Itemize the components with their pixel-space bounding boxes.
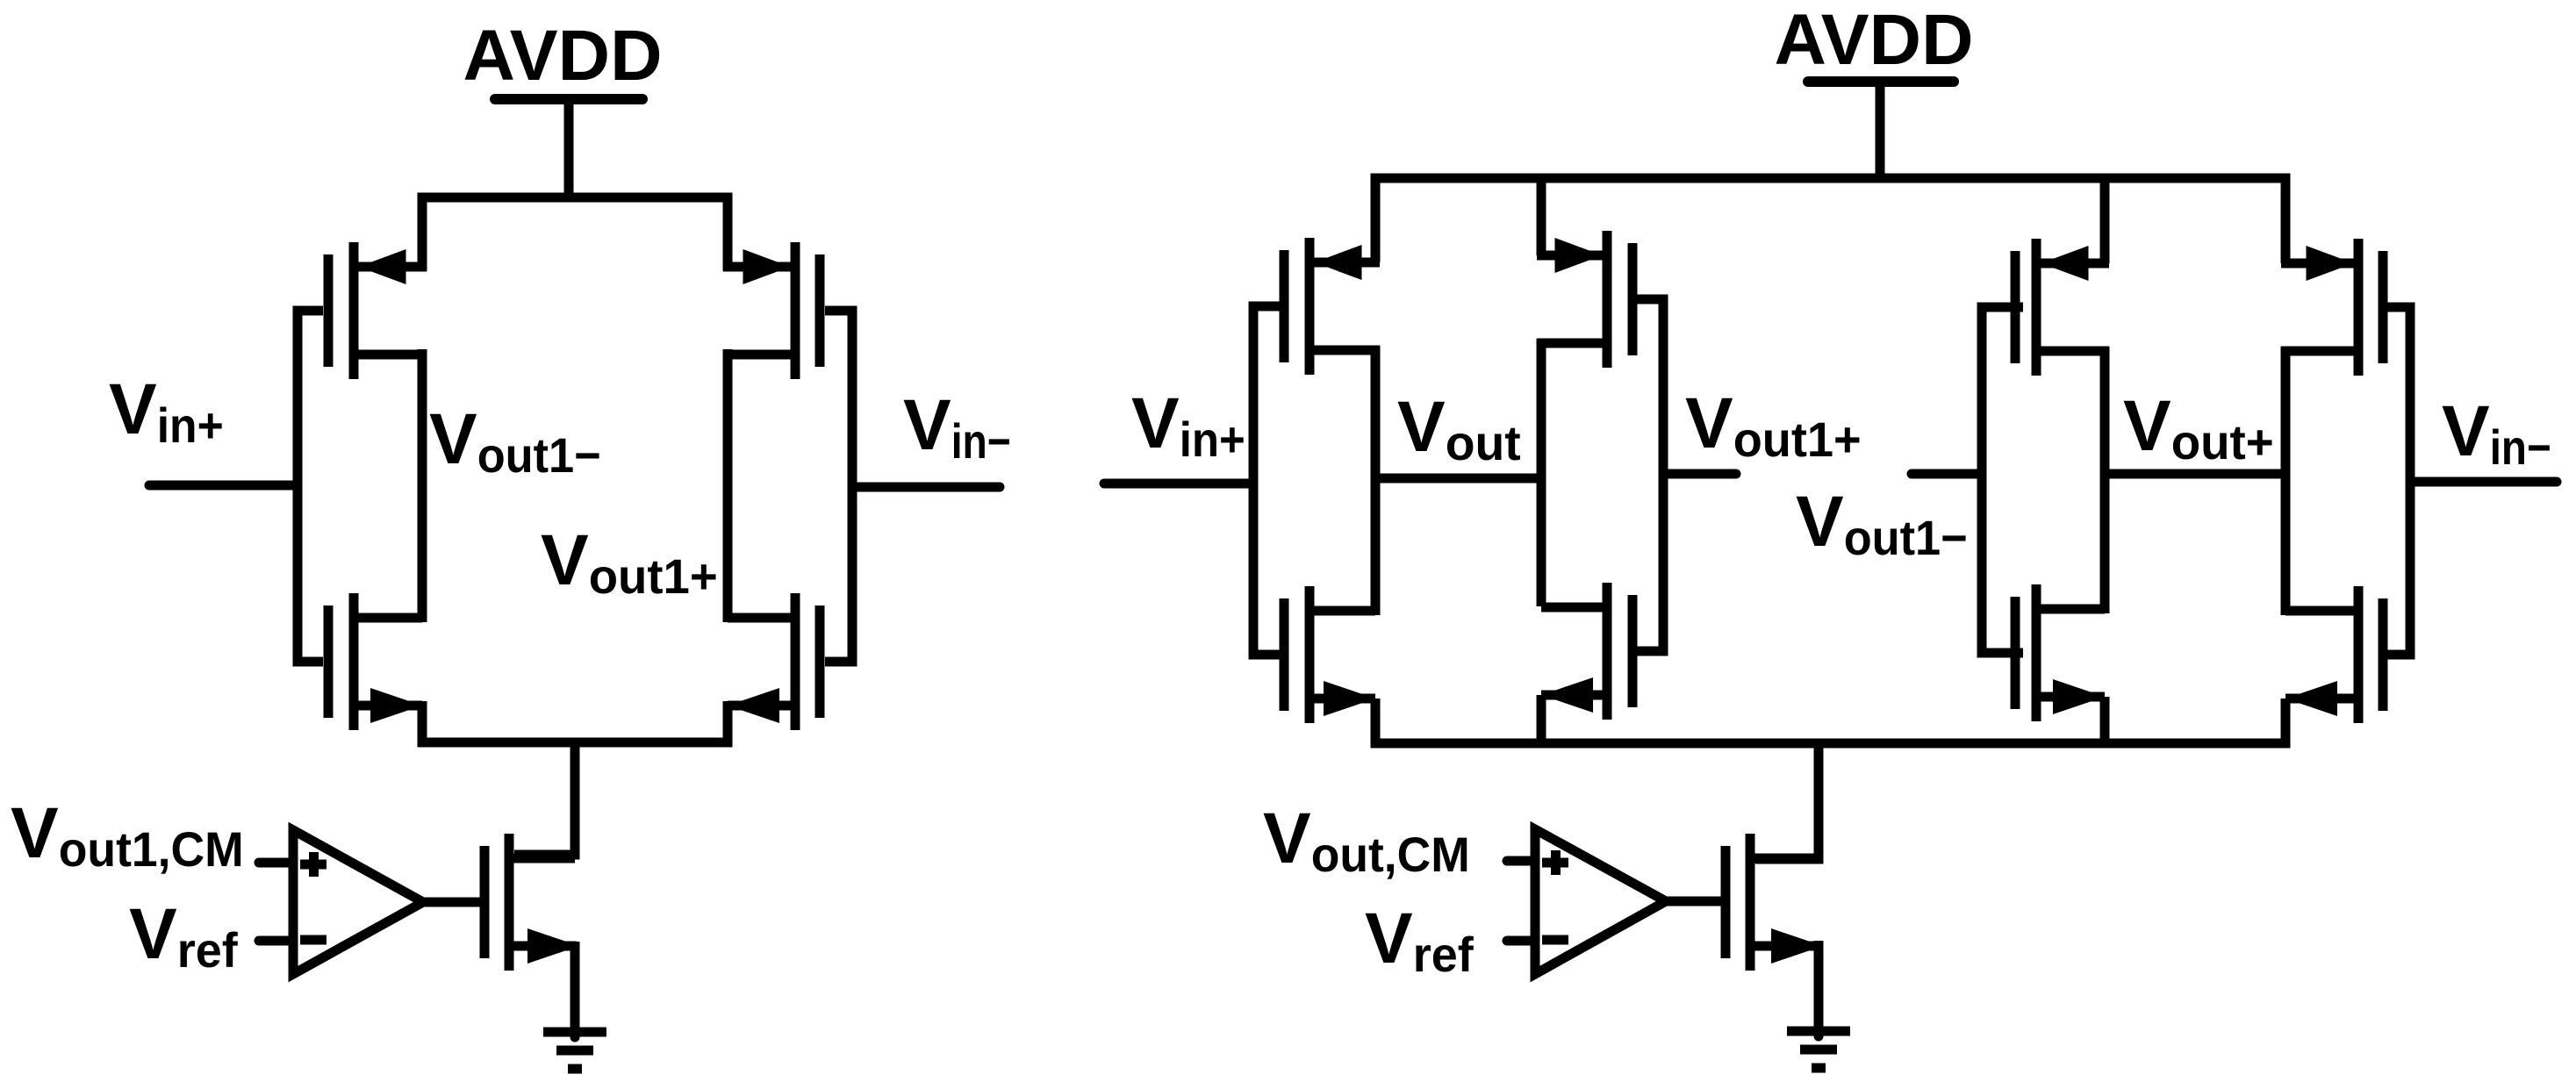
wire: input line Vin- (left circuit)	[852, 483, 1000, 492]
transistor PMOS M6 (right circuit, input stage +)	[1284, 238, 1380, 375]
wire: node line Vout+ (M8 drain to M9 drain)	[2105, 469, 2285, 479]
ground symbol (right circuit)	[1787, 946, 1850, 1068]
wire: tail drain wire (left circuit)	[514, 738, 575, 855]
transistor PMOS M7 (right circuit, cross pair left)	[1537, 231, 1632, 368]
wire: stub line node Vout1-	[1912, 469, 1982, 479]
wire: M5 source to ground	[570, 942, 580, 948]
transistor PMOS M2 (left circuit, right load)	[723, 242, 820, 379]
wire: gate bus of M9/M13 (input Vin-)	[2379, 307, 2410, 655]
transistor NMOS M13 (right circuit, below M9)	[2285, 586, 2383, 723]
svg-text:AVDD: AVDD	[1775, 0, 1974, 80]
power symbol AVDD (right circuit)	[1775, 0, 1974, 183]
transistor PMOS M9 (right circuit, input stage -)	[2281, 239, 2383, 376]
transistor NMOS M3 (left circuit, left driver)	[328, 593, 422, 730]
transistor PMOS M1 (left circuit, left load)	[328, 242, 427, 379]
transistor NMOS M12 (right circuit, below M8)	[2015, 584, 2105, 721]
op-amp U2 (right CMFB amplifier)	[1507, 829, 1666, 974]
wire: M6 drain vertical (node Vout)	[1371, 346, 1381, 615]
transistor NMOS M14 (right circuit tail current source)	[1726, 834, 1823, 971]
wire: M7 drain vertical (node Vout)	[1537, 339, 1546, 606]
wire: right gate bus Vin- (M2/M4 gates)	[825, 311, 852, 662]
wire: right circuit bottom rail (common source node)	[1375, 699, 2285, 743]
transistor NMOS M10 (right circuit, below M6)	[1284, 586, 1375, 723]
wire: rail drop to M7 source	[1537, 178, 1546, 255]
wire: left AVDD top rail	[422, 197, 728, 271]
wire: right AVDD top rail	[1375, 178, 2285, 263]
wire: M9 drain vertical (node Vout+)	[2281, 347, 2291, 615]
wire: U2 output to M14 gate	[1666, 897, 1722, 906]
wire: input line Vin+ (left circuit)	[149, 481, 298, 491]
wire: input line Vin- (right circuit)	[2410, 477, 2557, 487]
wire: gate bus of M6/M10 (input Vin+)	[1253, 306, 1288, 655]
transistor NMOS M5 (left circuit tail current source)	[484, 834, 579, 971]
wire: left gate bus Vin+ (M1/M3 gates)	[298, 311, 323, 662]
wire: node line Vout (M6 drain to M7 drain)	[1375, 474, 1541, 484]
wire: node Vout1+ vertical (M2 drain to M4 drain)	[723, 349, 733, 622]
transistor PMOS M8 (right circuit, cross pair right)	[2015, 239, 2109, 376]
wire: M12 source drop to rail	[2100, 697, 2110, 748]
wire: M14 source to ground	[1814, 941, 1824, 948]
transistor NMOS M11 (right circuit, below M7)	[1541, 583, 1632, 720]
wire: left circuit bottom rail (common source node)	[422, 701, 728, 742]
ground symbol (left circuit)	[543, 946, 606, 1069]
op-amp U1 (left CMFB amplifier)	[259, 830, 423, 974]
wire: gate bus of M8/M12 (input Vout1-)	[1982, 307, 2023, 653]
wire: rail drop to M8 source	[2100, 178, 2110, 263]
wire: input line Vin+ (right circuit)	[1104, 479, 1253, 489]
wire: U1 output to M5 gate	[423, 898, 481, 907]
svg-text:AVDD: AVDD	[463, 16, 663, 96]
wire: node Vout1- vertical (M1 drain to M3 drain)	[418, 349, 427, 622]
wire: gate bus of M7/M11 (input Vout1+)	[1628, 299, 1663, 651]
transistor NMOS M4 (left circuit, right driver)	[728, 593, 820, 730]
power symbol AVDD (left circuit)	[463, 16, 663, 202]
wire: stub line node Vout1+	[1663, 469, 1736, 479]
wire: M11 source drop to rail	[1537, 695, 1546, 748]
wire: M8 drain vertical (node Vout+)	[2100, 347, 2110, 613]
wire: tail drain wire (right circuit)	[1755, 739, 1819, 859]
